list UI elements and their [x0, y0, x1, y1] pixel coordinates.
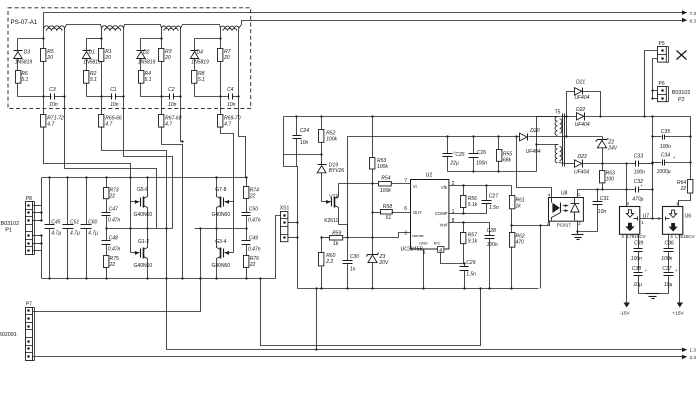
- svg-text:P5: P5: [659, 41, 665, 47]
- wire C25 rail riser: [347, 137, 349, 238]
- wire U2 RC leg: [441, 253, 465, 264]
- svg-text:C24: C24: [300, 128, 309, 134]
- svg-text:XS1: XS1: [280, 206, 290, 212]
- connector XS1 pins: [281, 218, 288, 220]
- transistor VT5 K2611: [322, 201, 332, 203]
- node long vert bottom rail a: [165, 277, 167, 279]
- node C29 top: [463, 262, 465, 264]
- resistor R67-68 4.7: [159, 115, 164, 128]
- svg-text:D20: D20: [530, 128, 539, 134]
- svg-text:20: 20: [46, 55, 53, 61]
- svg-text:G40N60: G40N60: [212, 263, 231, 269]
- wire D21 out: [583, 92, 601, 117]
- svg-text:L7815CV: L7815CV: [675, 234, 695, 239]
- node cap-row left: [219, 95, 221, 97]
- svg-text:R58: R58: [383, 204, 392, 210]
- capacitor C27 1.5n: [486, 186, 488, 201]
- resistor R5 20: [41, 49, 46, 62]
- wire cell left vertical lower: [220, 62, 222, 115]
- arrow +15V: [677, 303, 683, 308]
- resistor R1 20: [99, 49, 104, 62]
- svg-text:1N5819: 1N5819: [191, 59, 209, 65]
- connector P7 pins: [26, 314, 33, 316]
- resistor R61 1k: [511, 186, 513, 196]
- svg-text:C26: C26: [477, 150, 486, 156]
- svg-text:0.47n: 0.47n: [108, 218, 121, 224]
- svg-text:+15V: +15V: [672, 310, 684, 316]
- capacitor C50 0.47n: [246, 199, 248, 213]
- svg-text:68k: 68k: [503, 158, 512, 164]
- node P6 pin1: [651, 89, 653, 91]
- wire source ref 2: [124, 97, 173, 229]
- svg-text:4.7µ: 4.7µ: [88, 230, 98, 236]
- wire bridge mid rail right: [195, 228, 247, 230]
- wire diode top: [18, 38, 44, 40]
- svg-text:K2611: K2611: [324, 218, 338, 224]
- node C35 right: [689, 135, 691, 137]
- node Z3 gnd: [371, 287, 373, 289]
- wire plus rail corner: [690, 117, 692, 180]
- svg-text:C30: C30: [350, 254, 359, 260]
- connector P8 pins: [26, 209, 33, 211]
- transistor G1-2 G40N60: [131, 252, 140, 254]
- node C31 tap: [596, 188, 598, 190]
- wire top rail to 7.3: [44, 12, 681, 14]
- svg-text:D3: D3: [24, 49, 31, 55]
- wire coil link: [65, 25, 102, 29]
- svg-text:U2: U2: [426, 173, 433, 179]
- node mid-rail-R P7 riser: [199, 227, 201, 229]
- svg-text:G5-6: G5-6: [137, 187, 148, 193]
- wire D21 branch: [567, 92, 575, 117]
- svg-text:+: +: [673, 155, 676, 160]
- svg-text:3: 3: [404, 230, 407, 236]
- node R76 bottom: [245, 277, 247, 279]
- wire D19 to VT5 gate: [321, 173, 323, 202]
- resistor R69-70 4.7: [218, 115, 223, 128]
- wire bridge bottom rail: [42, 278, 276, 280]
- svg-text:4.7: 4.7: [224, 122, 231, 128]
- resistor R65-66 4.7: [99, 115, 104, 128]
- wire diode top: [195, 38, 221, 40]
- node cap-row right: [122, 95, 124, 97]
- wire cell right vertical: [180, 31, 182, 97]
- node C35 left: [651, 135, 653, 137]
- wire P5 pin2 riser: [653, 59, 658, 99]
- svg-text:4.7: 4.7: [47, 122, 54, 128]
- node C25 top: [446, 135, 448, 137]
- node R52 top: [320, 115, 322, 117]
- wire cell left vertical lower: [161, 62, 163, 115]
- svg-text:UF404: UF404: [575, 122, 590, 128]
- wire primary return riser: [537, 117, 559, 172]
- svg-text:1: 1: [578, 192, 581, 197]
- svg-text:100n: 100n: [661, 256, 672, 262]
- ground output section: [652, 293, 654, 295]
- svg-text:10n: 10n: [227, 102, 236, 108]
- node R56 top: [462, 184, 464, 186]
- svg-text:P2: P2: [678, 97, 685, 103]
- wire P8 pin2 stub: [33, 212, 42, 214]
- svg-text:+: +: [675, 268, 678, 273]
- transformer T5 winding lower: [555, 144, 557, 163]
- resistor R74 22: [246, 178, 248, 187]
- node sense at gnd rail: [479, 287, 481, 289]
- resistor R60 2.2: [321, 238, 323, 253]
- wire R59 node line: [322, 237, 330, 239]
- svg-text:100: 100: [606, 176, 615, 182]
- node P8 stub5: [40, 234, 42, 236]
- wire bridge top rail: [42, 177, 247, 179]
- svg-text:B03102: B03102: [672, 90, 691, 96]
- node G5-6 drain: [146, 176, 148, 178]
- transformer T5 core: [562, 114, 564, 167]
- svg-text:470: 470: [516, 239, 525, 245]
- svg-text:UC3845B: UC3845B: [401, 246, 424, 252]
- svg-text:2: 2: [627, 201, 630, 206]
- svg-text:10n: 10n: [49, 102, 58, 108]
- resistor R7 20: [218, 49, 223, 62]
- svg-text:G40N60: G40N60: [212, 212, 231, 218]
- wire cap row: [141, 96, 170, 98]
- wire comp to opto: [512, 225, 541, 227]
- svg-text:COMP: COMP: [435, 211, 448, 216]
- node G5-6 source: [146, 227, 148, 229]
- svg-text:U8: U8: [561, 191, 568, 197]
- node G1-2 source: [146, 277, 148, 279]
- node diode-top junction: [42, 37, 44, 39]
- wire C45 column: [49, 178, 51, 225]
- svg-text:4: 4: [548, 192, 551, 197]
- capacitor C24 10n: [296, 117, 298, 136]
- svg-text:R59: R59: [332, 230, 341, 236]
- svg-text:Isense: Isense: [412, 234, 423, 238]
- wire cap row: [18, 96, 52, 98]
- wire P8 pin3 stub: [33, 220, 42, 222]
- svg-text:C38: C38: [632, 266, 641, 272]
- svg-text:U6: U6: [685, 213, 692, 219]
- diode U8 led: [574, 198, 576, 204]
- resistor R58 51: [381, 210, 393, 215]
- diode D21 UF404: [575, 88, 582, 95]
- node bottom rail sense: [259, 277, 261, 279]
- svg-text:+: +: [640, 183, 643, 188]
- capacitor C1 10n: [111, 94, 113, 100]
- svg-text:100n: 100n: [634, 169, 645, 175]
- node cap-row left: [100, 95, 102, 97]
- node C51 bottom: [66, 277, 68, 279]
- svg-text:B03102: B03102: [1, 221, 20, 227]
- resistor R57 9.1k: [463, 223, 465, 233]
- svg-text:1000µ: 1000µ: [657, 169, 671, 175]
- svg-text:PC817: PC817: [557, 223, 571, 228]
- wire U7 U6 input link: [641, 218, 663, 220]
- svg-text:0.47n: 0.47n: [248, 218, 261, 224]
- wire rail 8.3: [239, 21, 681, 29]
- svg-text:C47: C47: [109, 207, 118, 213]
- node cap-row left: [42, 95, 44, 97]
- capacitor C28 100n: [489, 223, 491, 236]
- svg-text:+: +: [645, 268, 648, 273]
- node R59 right: [346, 236, 348, 238]
- capacitor C34 1000u: [653, 162, 662, 164]
- node P8 stub2: [40, 211, 42, 213]
- wire C32 row: [603, 189, 636, 191]
- svg-text:0.47n: 0.47n: [248, 246, 261, 252]
- wire U8 pin2 ground leg: [577, 221, 579, 235]
- wire D23 line: [567, 163, 575, 165]
- inductor winding L2: [102, 26, 124, 29]
- svg-text:R/C: R/C: [434, 242, 441, 246]
- wire main rail: [284, 116, 691, 118]
- svg-text:5.1k: 5.1k: [468, 202, 478, 208]
- diode D4: [194, 39, 196, 51]
- svg-text:C37: C37: [662, 266, 671, 272]
- svg-text:R54: R54: [381, 176, 390, 182]
- svg-text:C48: C48: [109, 235, 118, 241]
- wire cell right vertical: [64, 31, 66, 97]
- resistor R2 5.1: [86, 59, 88, 71]
- wire D20 to T5: [529, 136, 568, 138]
- transistor G7-8 G40N60: [225, 201, 234, 203]
- svg-text:100n: 100n: [631, 256, 642, 262]
- node R62 gnd: [510, 287, 512, 289]
- svg-text:470µ: 470µ: [632, 197, 643, 203]
- wire cell left vertical: [161, 31, 163, 49]
- resistor R55 68k: [498, 137, 500, 150]
- svg-text:C45: C45: [51, 220, 60, 226]
- inductor winding L4: [221, 26, 240, 28]
- svg-text:1k: 1k: [516, 203, 522, 209]
- wire diode top: [141, 38, 162, 40]
- capacitor C39 100n: [638, 235, 640, 249]
- wire P8 pin5 stub: [33, 235, 42, 237]
- wire OUT line: [373, 212, 381, 214]
- svg-text:D23: D23: [578, 154, 587, 160]
- svg-text:C4: C4: [227, 87, 234, 93]
- node R55 top: [497, 135, 499, 137]
- wire cell left vertical lower: [43, 62, 45, 115]
- svg-text:22: 22: [249, 193, 256, 199]
- wire P6 pin2 stub: [653, 98, 658, 100]
- node cap-row right: [237, 95, 239, 97]
- diode D22 UF404: [577, 113, 584, 120]
- node T5 junction 137: [565, 135, 567, 137]
- node R59 left: [320, 236, 322, 238]
- wire diode top: [87, 38, 102, 40]
- capacitor C38 10u: [634, 272, 643, 274]
- node long vert bottom rail b: [181, 277, 183, 279]
- wire cell left vertical: [220, 31, 222, 49]
- transistor G5-6 G40N60: [131, 201, 140, 203]
- ground under U8: [572, 234, 584, 236]
- wire cell left vertical lower: [101, 62, 103, 115]
- svg-text:20V: 20V: [379, 260, 390, 266]
- connector P8: [26, 202, 33, 255]
- node cap-row right: [179, 95, 181, 97]
- resistor R75 22: [104, 256, 109, 268]
- diode D1: [86, 39, 88, 51]
- wire supply drop to XS1 and gnd rail: [284, 117, 298, 289]
- node P8 stub6: [40, 242, 42, 244]
- svg-text:C60: C60: [88, 220, 97, 226]
- capacitor C25 22u: [447, 137, 449, 154]
- wire R58 drop: [372, 184, 374, 238]
- wire source ref 1: [65, 97, 157, 229]
- node diode-top junction: [160, 37, 162, 39]
- svg-text:C39: C39: [634, 241, 643, 247]
- svg-text:P8: P8: [26, 196, 32, 202]
- svg-text:20: 20: [164, 55, 171, 61]
- svg-text:C51: C51: [70, 220, 79, 226]
- svg-text:100k: 100k: [377, 164, 388, 170]
- svg-text:P6: P6: [659, 81, 665, 87]
- svg-text:Vi: Vi: [413, 184, 417, 189]
- wire R64 to U6 pin1: [679, 194, 691, 207]
- wire minus15 leg: [626, 235, 628, 303]
- connector P6: [658, 87, 667, 102]
- svg-text:8.3: 8.3: [690, 18, 697, 23]
- wire coil link: [124, 25, 162, 29]
- svg-text:C27: C27: [489, 194, 498, 200]
- node C34 left: [651, 161, 653, 163]
- transistor U8 photo-transistor: [551, 198, 553, 203]
- svg-text:22: 22: [109, 262, 116, 268]
- resistor R52 100k: [321, 117, 323, 130]
- wire XS1 pin4 stub: [288, 237, 298, 239]
- capacitor C26 100n: [473, 137, 475, 154]
- wire XS1 pin2 stub: [288, 222, 298, 224]
- svg-text:10µ: 10µ: [633, 282, 642, 288]
- svg-text:VT5: VT5: [329, 194, 338, 200]
- wire XS1 pin1 to bridge bottom rail: [276, 216, 281, 279]
- node R61-R62: [510, 224, 512, 226]
- svg-text:1: 1: [641, 220, 644, 225]
- node C47 bottom: [105, 227, 107, 229]
- svg-text:D22: D22: [576, 107, 585, 113]
- svg-text:20: 20: [104, 55, 111, 61]
- svg-text:4.7: 4.7: [165, 122, 172, 128]
- node D23 ext right: [651, 162, 653, 164]
- capacitor C4 10n: [228, 94, 230, 100]
- node R74 top: [245, 176, 247, 178]
- diode D2: [140, 39, 142, 51]
- node C29 gnd: [463, 287, 465, 289]
- node C60 bottom: [85, 277, 87, 279]
- wire gate feed right pair: [221, 127, 234, 253]
- connector XS1: [281, 212, 288, 242]
- svg-text:PS-07-A1: PS-07-A1: [11, 19, 38, 26]
- connector P7: [26, 308, 33, 361]
- svg-text:100n: 100n: [476, 161, 487, 167]
- wire C25 rail: [348, 136, 520, 138]
- wire D23 line extension: [603, 163, 631, 165]
- svg-text:C50: C50: [249, 207, 258, 213]
- svg-text:C31: C31: [600, 196, 609, 202]
- node XS1 pin2 node: [296, 221, 298, 223]
- svg-text:20: 20: [223, 55, 230, 61]
- svg-text:C49: C49: [249, 235, 258, 241]
- wire cell left vertical: [101, 31, 103, 49]
- svg-text:1: 1: [452, 209, 455, 215]
- voltage regulator U7 L7915CV: [620, 207, 640, 235]
- diode D23 UF404: [575, 160, 582, 167]
- svg-text:1n: 1n: [350, 266, 356, 272]
- svg-text:-15V: -15V: [620, 310, 631, 316]
- node reg link: [651, 217, 653, 219]
- arrow 1.3: [681, 349, 687, 351]
- svg-text:10n: 10n: [300, 140, 309, 146]
- svg-text:7.3: 7.3: [690, 11, 697, 16]
- svg-text:7: 7: [404, 178, 407, 184]
- arrow -15V: [624, 303, 630, 308]
- node D23 ext left: [625, 162, 627, 164]
- capacitor C60 4.7u: [81, 224, 92, 226]
- resistor R56 5.1k: [463, 186, 465, 196]
- wire caps to ground: [639, 293, 669, 295]
- svg-text:9.1k: 9.1k: [468, 239, 478, 245]
- svg-text:10µ: 10µ: [664, 282, 673, 288]
- node R63 bottom: [601, 188, 603, 190]
- svg-text:4.7µ: 4.7µ: [70, 230, 80, 236]
- svg-text:5.1: 5.1: [145, 77, 152, 83]
- svg-text:5: 5: [423, 250, 426, 256]
- svg-text:2: 2: [452, 181, 455, 187]
- capacitor C48 0.47n: [106, 229, 108, 241]
- op-amp U2 UC3845B: [411, 180, 449, 250]
- wire U8 pin3 stub: [541, 221, 550, 226]
- node C32 left: [625, 188, 627, 190]
- svg-text:5.1: 5.1: [21, 77, 28, 83]
- node P5 riser join: [643, 115, 645, 117]
- svg-text:22µ: 22µ: [449, 160, 459, 166]
- node primary tap: [535, 143, 537, 145]
- svg-text:BYV26: BYV26: [329, 168, 345, 174]
- svg-text:0.47n: 0.47n: [108, 246, 121, 252]
- svg-text:100n: 100n: [487, 242, 498, 248]
- node C24 top: [295, 115, 297, 117]
- connector P5: [658, 47, 667, 63]
- resistor R71-72 4.7: [41, 115, 46, 128]
- node U8 cathode leg join: [576, 230, 578, 232]
- wire Vfb line: [449, 185, 512, 187]
- arrow 7.3: [681, 12, 687, 14]
- svg-text:D4: D4: [197, 49, 204, 55]
- wire cell left vertical: [43, 31, 45, 49]
- wire P8 pins to bottom rail: [33, 250, 42, 252]
- wire Isense stub: [399, 233, 411, 238]
- wire coil link: [181, 25, 221, 29]
- resistor R73 22: [106, 178, 108, 188]
- wire T5 lower top tap: [537, 144, 559, 146]
- node long vert mid-rail-L a: [129, 227, 131, 229]
- svg-text:5.1: 5.1: [198, 77, 205, 83]
- svg-text:L7915CV: L7915CV: [627, 234, 647, 239]
- node rail1.3 riser: [315, 348, 317, 350]
- wire P7 riser mid segment: [200, 229, 202, 279]
- svg-text:2.3: 2.3: [690, 355, 697, 360]
- node C28 gnd: [488, 287, 490, 289]
- svg-text:D21: D21: [576, 80, 585, 86]
- wire Vref line: [449, 222, 490, 224]
- wire R63 to U8 anode: [578, 190, 603, 198]
- node diode-top junction: [219, 37, 221, 39]
- svg-text:8: 8: [452, 218, 455, 224]
- capacitor C2 10n: [169, 94, 171, 100]
- capacitor C36 100n: [668, 235, 670, 249]
- capacitor C49 0.47n: [246, 229, 248, 241]
- svg-text:C3: C3: [49, 87, 56, 93]
